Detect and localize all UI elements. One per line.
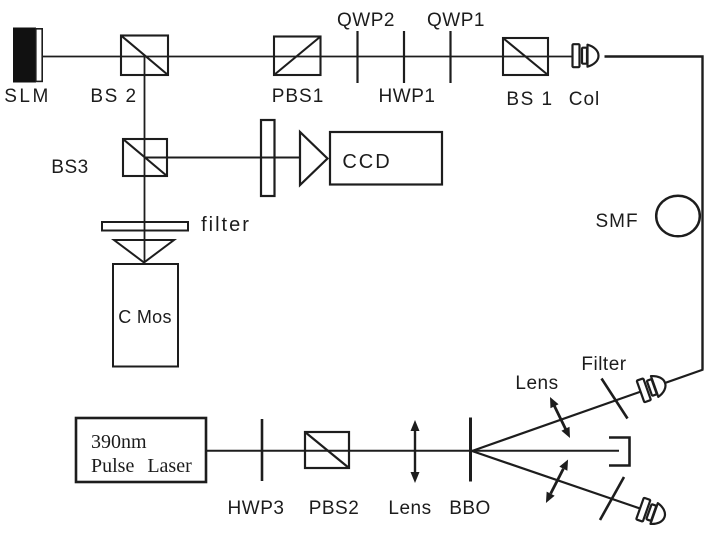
wire beam BS3 to CCD: [145, 157, 302, 159]
polarizing beam splitter PBS1: [274, 37, 321, 76]
svg-text:PBS2: PBS2: [309, 498, 360, 519]
tilted lens arrow on upper beam: [546, 395, 574, 440]
beam stop bracket: [609, 438, 630, 466]
wire top beam SLM to corner: [42, 56, 572, 58]
label PBS1: [272, 86, 325, 107]
CCD camera box: [330, 132, 442, 185]
label QWP1: [427, 10, 485, 31]
nonlinear crystal BBO: [469, 418, 472, 482]
label HWP3: [228, 498, 285, 519]
svg-text:QWP1: QWP1: [427, 10, 485, 31]
wire middle beam BBO to bracket: [472, 450, 619, 452]
svg-text:Lens: Lens: [388, 498, 431, 519]
svg-text:BS3: BS3: [51, 157, 88, 178]
SLM mirror black slab: [13, 28, 42, 83]
label BS 1: [506, 89, 553, 110]
svg-text:SMF: SMF: [595, 211, 638, 232]
waveplate HWP3: [261, 419, 264, 481]
svg-text:BBO: BBO: [449, 498, 491, 519]
svg-text:QWP2: QWP2: [337, 10, 395, 31]
svg-text:SLM: SLM: [4, 86, 51, 107]
wire diagonal corner to upper collimator: [664, 370, 704, 384]
label Lens: [388, 498, 431, 519]
svg-text:PBS1: PBS1: [272, 86, 325, 107]
svg-text:390nm: 390nm: [91, 431, 147, 453]
label SMF: [595, 211, 638, 232]
beam splitter BS3: [123, 139, 167, 176]
CMos camera box: [113, 264, 178, 367]
390nm pulse laser box: [76, 418, 206, 482]
svg-text:HWP3: HWP3: [228, 498, 285, 519]
wire upper diverging beam BBO to collimator: [472, 392, 641, 452]
label Lens upper: [515, 373, 558, 394]
wire right rail corner and vertical: [605, 57, 703, 370]
svg-text:Lens: Lens: [515, 373, 558, 394]
waveplate QWP1: [449, 31, 451, 83]
waveplate QWP2: [356, 31, 358, 83]
wire vertical beam BS2 to CMos: [144, 57, 146, 263]
svg-text:Pulse Laser: Pulse Laser: [91, 455, 192, 477]
label filter: [201, 214, 251, 236]
wire lower diverging beam BBO to collimator: [472, 451, 642, 509]
focusing triangle above CMos: [114, 240, 174, 263]
label HWP1: [379, 86, 436, 107]
single mode fiber loop SMF: [656, 196, 700, 237]
lens plate before CCD: [261, 120, 275, 196]
svg-text:Filter: Filter: [581, 354, 626, 375]
beam splitter BS2: [121, 36, 168, 76]
svg-text:CCD: CCD: [342, 151, 391, 173]
wire laser beam to BBO: [206, 450, 471, 452]
tilted lens arrow on lower beam: [542, 457, 572, 505]
filter plate horizontal: [102, 222, 188, 231]
label PBS2: [309, 498, 360, 519]
collimator upper right: [637, 372, 669, 402]
svg-text:BS 2: BS 2: [90, 86, 137, 107]
collimator Col: [573, 44, 599, 67]
svg-text:HWP1: HWP1: [379, 86, 436, 107]
svg-text:filter: filter: [201, 214, 251, 236]
svg-text:C Mos: C Mos: [118, 307, 172, 327]
beam splitter BS1: [503, 38, 548, 75]
tilted filter plate on lower beam: [600, 477, 624, 520]
collimator lower right: [636, 498, 668, 528]
label Filter: [581, 354, 626, 375]
objective triangle before CCD: [300, 132, 328, 185]
tilted filter plate on upper beam: [602, 379, 628, 419]
svg-text:BS 1: BS 1: [506, 89, 553, 110]
svg-text:Col: Col: [569, 89, 601, 110]
label BS3: [51, 157, 88, 178]
label SLM: [4, 86, 51, 107]
label QWP2: [337, 10, 395, 31]
polarizing beam splitter PBS2: [305, 432, 349, 468]
label BBO: [449, 498, 491, 519]
lens double arrow vertical: [411, 420, 420, 483]
waveplate HWP1: [403, 31, 405, 83]
label Col: [569, 89, 601, 110]
label BS 2: [90, 86, 137, 107]
